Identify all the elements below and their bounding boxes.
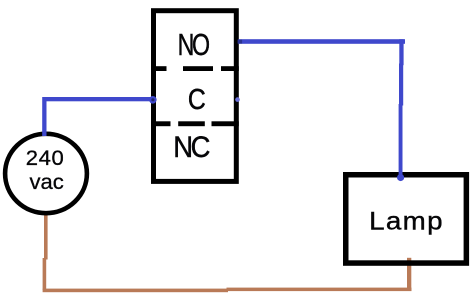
svg-text:240: 240 <box>26 147 65 170</box>
svg-text:NC: NC <box>173 131 210 164</box>
svg-text:vac: vac <box>29 169 63 194</box>
svg-text:NO: NO <box>178 27 209 62</box>
svg-text:Lamp: Lamp <box>369 207 444 235</box>
svg-text:C: C <box>188 83 206 115</box>
